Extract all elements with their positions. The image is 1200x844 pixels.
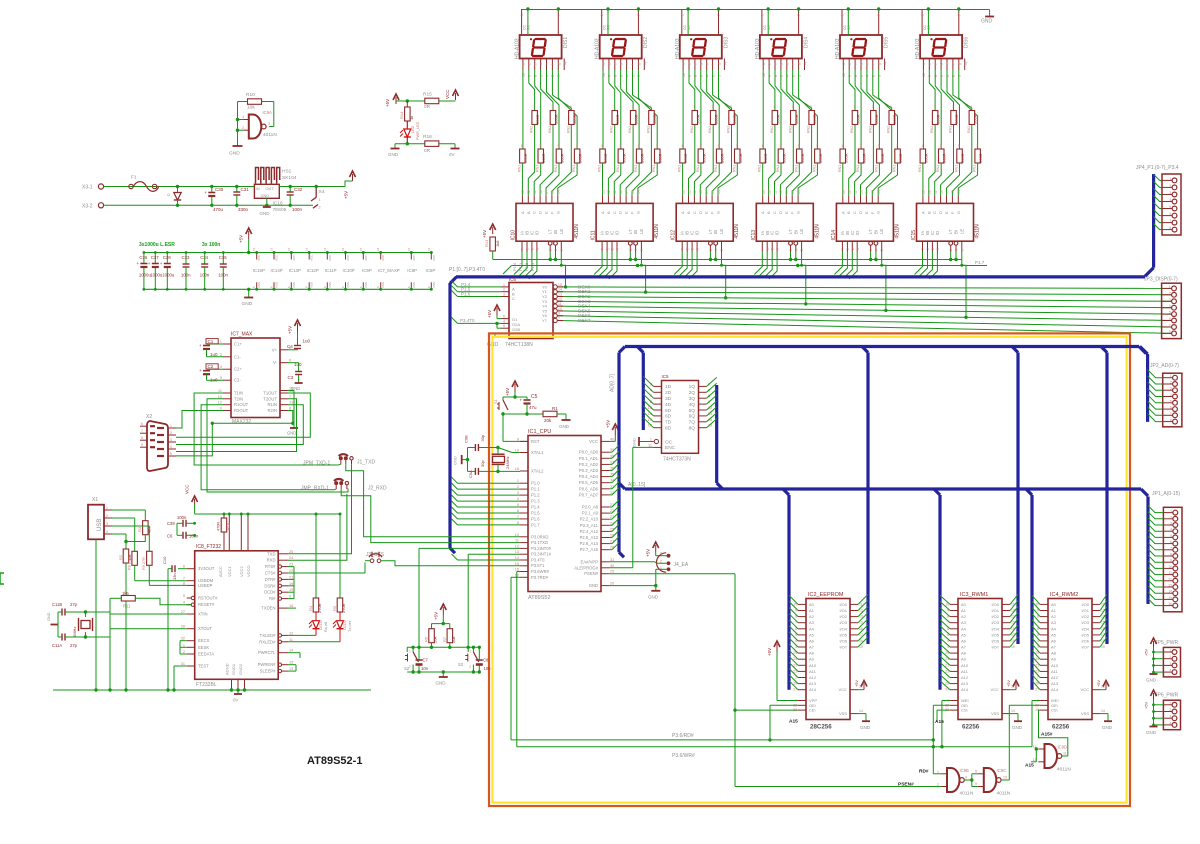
svg-text:+5V: +5V — [646, 549, 651, 557]
svg-text:P0.5_AD5: P0.5_AD5 — [579, 480, 599, 485]
svg-text:PSEN#: PSEN# — [584, 571, 598, 576]
svg-text:5: 5 — [780, 75, 784, 77]
svg-text:X3-1: X3-1 — [82, 185, 93, 191]
svg-text:D: D — [858, 211, 863, 214]
pins IC2_EEPROM data — [850, 603, 858, 605]
svg-text:ID: ID — [534, 231, 539, 235]
svg-text:13: 13 — [1168, 584, 1172, 588]
bus riser JP1 — [1146, 497, 1149, 605]
svg-text:4: 4 — [1169, 721, 1171, 725]
svg-text:GND: GND — [860, 725, 871, 730]
svg-text:7: 7 — [637, 14, 641, 16]
LED PWR_LED — [406, 121, 408, 129]
svg-text:RN2: RN2 — [850, 126, 854, 133]
svg-text:1: 1 — [106, 506, 108, 510]
svg-text:4: 4 — [634, 249, 638, 251]
svg-text:560R: 560R — [621, 153, 626, 163]
svg-text:T2IN: T2IN — [234, 396, 243, 401]
svg-text:E: E — [704, 211, 709, 214]
svg-text:G: G — [635, 211, 640, 214]
IC2_EEPROM 28C256 memory IC — [806, 599, 850, 720]
svg-text:8: 8 — [774, 75, 778, 77]
svg-text:6: 6 — [183, 565, 185, 569]
svg-text:GND: GND — [261, 194, 270, 198]
svg-text:RN1: RN1 — [634, 165, 638, 172]
svg-text:D: D — [618, 211, 623, 214]
wire TEST to ground — [174, 665, 187, 667]
bus P1.[0..7],P3.4T0 — [456, 275, 1145, 278]
svg-text:g: g — [637, 63, 641, 65]
capacitor C9B 30p — [474, 444, 476, 451]
svg-text:HS1: HS1 — [282, 169, 292, 175]
wire LED to FT232 — [288, 634, 316, 636]
svg-text:16: 16 — [289, 604, 293, 608]
svg-text:560R: 560R — [652, 114, 657, 124]
svg-text:10: 10 — [859, 190, 863, 194]
wire DIS4 supply pins to GND rail — [761, 9, 763, 35]
resistor network RN7 560R (lower row) — [760, 149, 766, 163]
svg-text:OC: OC — [665, 439, 673, 445]
resistor R4 270R — [315, 514, 317, 598]
svg-text:c: c — [533, 63, 537, 65]
wire resistor network to IC15 inputs — [922, 163, 924, 196]
svg-text:10: 10 — [289, 588, 293, 592]
svg-text:B: B — [686, 211, 691, 214]
svg-text:f: f — [791, 64, 795, 65]
svg-text:12: 12 — [848, 190, 852, 194]
svg-text:1: 1 — [521, 144, 523, 148]
svg-text:4: 4 — [1169, 669, 1171, 673]
svg-text:560R: 560R — [578, 153, 583, 163]
svg-text:3: 3 — [503, 293, 505, 297]
svg-text:TXD: TXD — [267, 551, 275, 556]
svg-text:10: 10 — [939, 190, 943, 194]
svg-text:4: 4 — [965, 776, 967, 780]
svg-text:10n: 10n — [484, 666, 492, 671]
svg-text:I/O5: I/O5 — [839, 632, 847, 637]
svg-text:7: 7 — [601, 248, 605, 250]
svg-text:LT: LT — [868, 229, 873, 234]
svg-text:IC12: IC12 — [671, 230, 677, 241]
ground MAX232 pin15 — [288, 390, 294, 392]
wire latch Q outputs to riser — [707, 377, 717, 386]
pins DIS4 segment pins — [762, 59, 764, 71]
wire DIS6 segments to resistor network — [922, 70, 924, 149]
svg-text:I/O7: I/O7 — [839, 645, 847, 650]
resistor network RN3 560R (lower row) — [600, 149, 606, 163]
svg-text:12: 12 — [515, 544, 519, 548]
svg-text:3: 3 — [632, 105, 634, 109]
svg-text:dp: dp — [883, 61, 887, 65]
svg-text:CC: CC — [927, 24, 931, 30]
svg-text:6: 6 — [616, 248, 620, 250]
svg-text:1: 1 — [773, 105, 775, 109]
svg-text:4011N: 4011N — [263, 132, 277, 138]
svg-text:C1+: C1+ — [234, 342, 242, 347]
svg-text:GND: GND — [260, 211, 271, 216]
svg-text:3: 3 — [552, 105, 554, 109]
svg-text:16: 16 — [359, 247, 363, 251]
svg-text:560R: 560R — [701, 153, 706, 163]
svg-text:9: 9 — [768, 75, 772, 77]
svg-text:4: 4 — [503, 319, 505, 323]
svg-text:P3.6/WR#: P3.6/WR# — [672, 753, 695, 759]
svg-text:12: 12 — [218, 401, 222, 405]
diode D1 — [176, 185, 179, 188]
svg-text:PWRCTL: PWRCTL — [258, 650, 276, 655]
svg-text:RN1: RN1 — [714, 165, 718, 172]
svg-text:3: 3 — [1169, 662, 1171, 666]
svg-text:VCC: VCC — [346, 254, 350, 261]
svg-text:R1OUT: R1OUT — [234, 402, 249, 407]
svg-text:10: 10 — [602, 73, 606, 77]
wire DIS5 segments to resistor network — [842, 70, 844, 149]
svg-text:560R: 560R — [972, 114, 977, 124]
svg-text:6MHz: 6MHz — [72, 627, 77, 637]
svg-text:1u0: 1u0 — [210, 377, 218, 382]
svg-text:P0.0_AD0: P0.0_AD0 — [579, 450, 599, 455]
svg-text:8: 8 — [614, 75, 618, 77]
svg-text:560R: 560R — [572, 114, 577, 124]
IC6 74HCT138N 3-to-8 decoder — [509, 283, 553, 339]
svg-text:560R: 560R — [732, 114, 737, 124]
svg-text:8Q: 8Q — [689, 426, 696, 432]
svg-text:4: 4 — [625, 75, 629, 77]
svg-text:560R: 560R — [683, 153, 688, 163]
svg-text:IC11P: IC11P — [325, 268, 337, 273]
svg-text:560R: 560R — [923, 153, 928, 163]
svg-text:f: f — [711, 64, 715, 65]
svg-text:100n: 100n — [177, 515, 187, 520]
svg-text:15: 15 — [871, 190, 875, 194]
pins IC10 latch/blank/input pins — [521, 241, 523, 252]
svg-text:560R: 560R — [738, 153, 743, 163]
pins IC14 latch/blank/input pins — [841, 241, 843, 252]
svg-text:CC: CC — [763, 24, 767, 30]
svg-text:R7: R7 — [442, 636, 447, 642]
svg-text:4511N: 4511N — [894, 224, 900, 239]
svg-text:P1.5: P1.5 — [531, 511, 540, 516]
svg-text:G: G — [876, 211, 881, 214]
wire DIS2 segments to resistor network — [602, 70, 604, 149]
svg-text:J2_RXD: J2_RXD — [368, 485, 387, 491]
wire IC10 BCD inputs to P1 bus — [514, 252, 522, 275]
svg-text:D: D — [778, 211, 783, 214]
svg-text:RST: RST — [531, 439, 540, 444]
svg-text:VCC: VCC — [257, 254, 261, 261]
svg-text:A8: A8 — [1051, 651, 1057, 656]
svg-text:ID: ID — [695, 231, 700, 235]
svg-text:R4: R4 — [308, 605, 313, 611]
svg-text:RN2: RN2 — [807, 126, 811, 133]
svg-text:27p: 27p — [70, 643, 78, 648]
power +5V JP6 — [1153, 693, 1155, 699]
wire IC11 LE to DEK1 — [641, 252, 645, 292]
svg-text:1: 1 — [183, 643, 185, 647]
svg-text:LT: LT — [548, 229, 553, 234]
svg-text:560R: 560R — [634, 114, 639, 124]
svg-text:47u: 47u — [529, 405, 537, 410]
svg-text:16: 16 — [323, 247, 327, 251]
wire IC9D input A15 — [1035, 749, 1037, 762]
svg-text:C: C — [932, 211, 937, 214]
power +5V IC2_EEPROM VCC — [863, 684, 865, 690]
svg-text:RN2: RN2 — [930, 126, 934, 133]
svg-text:JP6_PWR: JP6_PWR — [1155, 693, 1178, 699]
svg-text:5D: 5D — [665, 408, 672, 414]
svg-text:f: f — [952, 64, 956, 65]
power +5V MAX232 — [297, 323, 299, 331]
svg-text:14: 14 — [557, 190, 561, 194]
svg-text:2: 2 — [1169, 655, 1171, 659]
svg-text:560R: 560R — [782, 153, 787, 163]
svg-text:RN2: RN2 — [967, 126, 971, 133]
power +5V R14 — [395, 97, 397, 104]
svg-text:5: 5 — [560, 249, 564, 251]
svg-text:5: 5 — [1169, 311, 1171, 315]
wire pullup rail LT/BI — [492, 251, 494, 260]
svg-text:RN1: RN1 — [517, 165, 521, 172]
svg-text:VCC: VCC — [445, 89, 450, 99]
svg-text:10: 10 — [539, 190, 543, 194]
svg-text:8: 8 — [975, 770, 977, 774]
svg-text:1: 1 — [1170, 374, 1172, 378]
svg-text:VCC: VCC — [1081, 687, 1090, 692]
wire S3 to CPU INT1 — [467, 554, 469, 647]
svg-text:1: 1 — [319, 198, 321, 202]
svg-text:VSS: VSS — [292, 282, 296, 288]
connector JP6_PWR header — [1163, 700, 1180, 730]
svg-text:CTS#: CTS# — [265, 571, 276, 576]
svg-text:LED: LED — [411, 125, 415, 133]
svg-text:8: 8 — [1170, 553, 1172, 557]
svg-text:USBDP: USBDP — [198, 583, 213, 588]
svg-text:CC: CC — [523, 24, 527, 30]
svg-text:560R: 560R — [874, 114, 879, 124]
svg-text:VSS: VSS — [346, 282, 350, 288]
svg-text:E: E — [544, 211, 549, 214]
svg-text:16: 16 — [270, 247, 274, 251]
svg-text:CC: CC — [527, 24, 531, 30]
svg-text:2: 2 — [931, 248, 935, 250]
power +5V IC2 VPP — [776, 644, 778, 652]
svg-text:C7: C7 — [423, 658, 429, 663]
wire DIS3 segments to resistor network — [682, 70, 684, 149]
svg-text:RN1: RN1 — [598, 165, 602, 172]
wire IC9B out to IC9C in — [964, 779, 972, 781]
svg-text:A: A — [760, 211, 765, 214]
svg-text:1: 1 — [1170, 509, 1172, 513]
wire IC15 BCD inputs to P1 bus — [915, 252, 923, 275]
svg-text:E: E — [944, 211, 949, 214]
svg-text:C: C — [612, 211, 617, 214]
svg-text:A2: A2 — [961, 614, 967, 619]
resistor R14 1k — [406, 101, 408, 107]
svg-text:A: A — [920, 211, 925, 214]
svg-text:EA#/VPP: EA#/VPP — [581, 559, 599, 564]
resistor R5 270R — [339, 514, 341, 598]
connector X2 DB9 — [147, 421, 168, 471]
IC5 74HCT373N octal latch — [662, 381, 699, 454]
svg-text:RN1: RN1 — [554, 165, 558, 172]
svg-text:RN2: RN2 — [530, 126, 534, 133]
svg-text:470u: 470u — [213, 207, 224, 212]
svg-text:+: + — [199, 343, 202, 348]
svg-text:2: 2 — [1169, 708, 1171, 712]
wire DEK0-DEK7 decoder outputs — [558, 287, 1172, 289]
svg-text:IC6: IC6 — [509, 277, 517, 282]
svg-text:A9: A9 — [809, 657, 815, 662]
svg-text:1: 1 — [846, 248, 850, 250]
pins IC4_RWM2 control — [1040, 700, 1048, 702]
power +5V EA — [655, 545, 657, 552]
left edge mark — [0, 572, 4, 574]
ground R1 — [557, 413, 566, 415]
svg-text:RN1: RN1 — [652, 165, 656, 172]
gate IC9A 4011N — [249, 115, 261, 139]
svg-text:I/O4: I/O4 — [839, 626, 847, 631]
pins IC11 latch/blank/input pins — [601, 241, 603, 252]
svg-text:C31: C31 — [241, 187, 250, 192]
svg-text:ID: ID — [615, 231, 620, 235]
bus latch Q outputs to A bus riser — [715, 385, 718, 483]
svg-text:VCC: VCC — [991, 687, 1000, 692]
svg-text:6: 6 — [503, 315, 505, 319]
svg-text:5: 5 — [880, 249, 884, 251]
svg-text:4: 4 — [545, 75, 549, 77]
bus AD horizontal — [625, 345, 1139, 348]
svg-text:P1.7: P1.7 — [975, 260, 985, 265]
svg-text:9: 9 — [975, 782, 977, 786]
svg-text:X2: X2 — [146, 414, 152, 420]
svg-text:d: d — [940, 63, 944, 65]
svg-text:P1.3: P1.3 — [530, 262, 535, 271]
svg-text:VSS: VSS — [328, 282, 332, 288]
svg-text:AT89S52-1: AT89S52-1 — [307, 755, 362, 767]
svg-text:4011N: 4011N — [997, 791, 1011, 797]
svg-text:B: B — [526, 211, 531, 214]
svg-text:560R: 560R — [978, 153, 983, 163]
bus A riser for IC2_EEPROM — [783, 489, 789, 495]
svg-text:VSS: VSS — [275, 282, 279, 288]
resistor R16 0R — [425, 141, 439, 147]
connector X1 USB — [88, 505, 104, 540]
capacitor C32 100n — [289, 185, 292, 188]
power +5V decoupling — [248, 231, 250, 239]
svg-text:BI: BI — [954, 230, 959, 234]
svg-text:9: 9 — [865, 192, 869, 194]
svg-text:4: 4 — [1170, 528, 1172, 532]
svg-text:A14: A14 — [961, 687, 969, 692]
svg-text:2: 2 — [183, 650, 185, 654]
svg-text:RN1: RN1 — [856, 165, 860, 172]
svg-text:A8: A8 — [809, 651, 815, 656]
svg-text:8: 8 — [1170, 418, 1172, 422]
wire DIS4 segments to resistor network — [762, 70, 764, 149]
svg-text:A7: A7 — [809, 645, 815, 650]
svg-text:RN1: RN1 — [758, 165, 762, 172]
svg-text:2: 2 — [1169, 184, 1171, 188]
svg-text:IC13P: IC13P — [289, 268, 301, 273]
highlight frame yellow — [492, 337, 1126, 803]
svg-text:P3.6WR#: P3.6WR# — [531, 569, 550, 574]
svg-text:6: 6 — [1169, 212, 1171, 216]
svg-text:3: 3 — [878, 75, 882, 77]
svg-text:VSS: VSS — [257, 282, 261, 288]
svg-text:GND: GND — [559, 424, 570, 429]
svg-text:2: 2 — [660, 559, 662, 563]
svg-text:16: 16 — [287, 247, 291, 251]
svg-text:560R: 560R — [603, 153, 608, 163]
svg-text:AGND: AGND — [225, 663, 230, 675]
svg-text:C2+: C2+ — [234, 367, 242, 372]
svg-text:4Q: 4Q — [689, 402, 696, 408]
resistor network RN5 560R (lower row) — [680, 149, 686, 163]
svg-text:C: C — [532, 211, 537, 214]
svg-text:5: 5 — [798, 144, 800, 148]
pins DIS2 segment pins — [602, 59, 604, 71]
resistor R7 20k — [449, 624, 451, 629]
svg-text:I/O2: I/O2 — [1081, 614, 1089, 619]
svg-text:5: 5 — [860, 75, 864, 77]
svg-text:A3: A3 — [809, 620, 815, 625]
svg-text:3: 3 — [619, 144, 621, 148]
svg-text:4: 4 — [517, 497, 519, 501]
svg-text:20: 20 — [610, 582, 614, 586]
svg-text:DSR#: DSR# — [264, 583, 276, 588]
svg-text:+: + — [520, 398, 523, 403]
svg-text:VCC1: VCC1 — [227, 566, 232, 577]
svg-text:BI: BI — [873, 230, 878, 234]
svg-text:RTS#: RTS# — [265, 564, 276, 569]
svg-text:V-: V- — [273, 360, 278, 365]
crystal Q1 24MHz — [492, 453, 505, 455]
svg-text:1000u: 1000u — [150, 273, 163, 278]
svg-text:1: 1 — [503, 283, 505, 287]
svg-text:5: 5 — [878, 144, 880, 148]
ground PWR LED — [391, 148, 400, 150]
svg-text:4: 4 — [1169, 304, 1171, 308]
svg-text:3D: 3D — [665, 396, 672, 402]
svg-text:2Q: 2Q — [689, 390, 696, 396]
svg-text:1: 1 — [841, 144, 843, 148]
svg-text:CE\: CE\ — [809, 708, 817, 713]
wire IC2_EEPROM data to AD riser — [858, 594, 868, 604]
svg-text:15: 15 — [558, 283, 562, 287]
svg-text:LE: LE — [639, 229, 644, 234]
svg-text:DIS1: DIS1 — [563, 37, 569, 48]
svg-text:13: 13 — [289, 667, 293, 671]
svg-text:8: 8 — [854, 75, 858, 77]
svg-text:P1.6: P1.6 — [461, 292, 471, 297]
svg-text:e: e — [625, 63, 629, 65]
capacitor C9A 30p — [474, 468, 476, 475]
wire DIS6 supply pins to GND rail — [921, 9, 923, 35]
wire IC13 LE to DEK3 — [802, 252, 806, 304]
svg-text:Tx oer: Tx oer — [347, 620, 352, 632]
resistor network RN11 560R (lower row) — [920, 149, 926, 163]
IC1 CPU AT89S52 — [528, 436, 601, 592]
svg-text:13: 13 — [762, 190, 766, 194]
svg-text:P1.1: P1.1 — [531, 487, 540, 492]
svg-text:11: 11 — [1063, 752, 1067, 756]
svg-text:LE: LE — [959, 229, 964, 234]
svg-text:A2: A2 — [809, 614, 815, 619]
svg-text:32: 32 — [181, 637, 185, 641]
svg-text:EESK: EESK — [198, 645, 209, 650]
wire IC14 LE to DEK4 — [882, 252, 886, 310]
svg-text:P2.7_A15: P2.7_A15 — [580, 547, 599, 552]
